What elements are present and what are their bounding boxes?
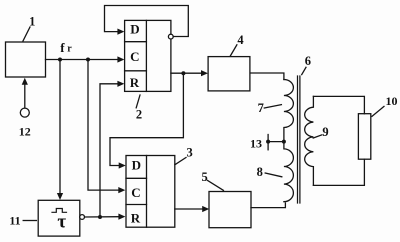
junction node C on flip-flop 2 output: [181, 71, 185, 75]
junction node on primary centre tap: [282, 140, 286, 144]
svg-text:6: 6: [305, 54, 311, 68]
resistor 10 (load): [358, 114, 370, 160]
flip-flop 3 body: [126, 156, 175, 228]
leader line for label 9: [313, 135, 322, 138]
label 4: [237, 33, 244, 47]
leader dash for label 11: [23, 220, 36, 222]
wire: node A down to block 11 (arrow): [57, 60, 63, 201]
svg-text:12: 12: [19, 125, 31, 139]
wire: winding 9 top to load resistor 10: [313, 96, 364, 113]
svg-text:4: 4: [237, 33, 244, 47]
label 2: [136, 107, 142, 121]
wire: flip-flop 2 inverted output feedback to its D input: [105, 6, 189, 37]
tau symbol inside block 11: [57, 212, 66, 233]
wire: block 5 output to winding 8: [251, 203, 285, 208]
label 10: [386, 94, 398, 108]
flip-flop 3 input column divider: [146, 156, 148, 228]
label 6: [305, 54, 311, 68]
flip-flop 2 pin label D: [130, 22, 139, 37]
leader line for label 4: [230, 45, 237, 56]
svg-text:D: D: [130, 22, 139, 37]
wire: terminal 12 up to block 1 (arrow): [22, 78, 28, 108]
leader line for label 10: [372, 106, 384, 116]
flip-flop 3 D/C cell divider: [126, 177, 147, 179]
flip-flop 2 D/C cell divider: [125, 41, 147, 43]
svg-text:C: C: [130, 49, 139, 64]
block 1 (reference frequency oscillator): [6, 42, 46, 77]
flip-flop 3 C/R cell divider: [126, 204, 147, 206]
leader line for label 1: [23, 27, 30, 41]
wire: block 1 output to C input of flip-flop 2: [46, 56, 125, 62]
svg-text:C: C: [131, 185, 140, 200]
svg-text:R: R: [131, 211, 141, 226]
block 11 (pulse former, monostable): [38, 200, 80, 236]
svg-text:10: 10: [386, 94, 398, 108]
pulse symbol inside block 11: [52, 209, 67, 213]
label 3: [186, 146, 192, 160]
label 7: [258, 101, 264, 115]
wire: flip-flop 2 output to block 4: [171, 70, 208, 76]
svg-text:2: 2: [136, 107, 142, 121]
wire: centre tap to terminal 13: [268, 141, 284, 143]
wire: resistor 10 bottom back to winding 9: [313, 159, 364, 185]
svg-text:1: 1: [29, 14, 35, 28]
svg-text:7: 7: [258, 101, 264, 115]
label 8: [257, 165, 263, 179]
svg-text:8: 8: [257, 165, 263, 179]
leader line for label 3: [175, 158, 186, 165]
label 1: [29, 14, 35, 28]
leader line for label 2: [136, 95, 140, 108]
transformer core line (left): [297, 76, 299, 203]
winding 9 (secondary): [305, 96, 314, 185]
junction node D on block 11 output: [98, 215, 102, 219]
junction dot at terminal 13: [266, 140, 270, 144]
svg-text:r: r: [67, 44, 72, 55]
input terminal circle (node 12): [20, 108, 29, 117]
flip-flop 2 input column divider: [145, 20, 147, 91]
label 13: [250, 136, 262, 150]
winding 7 (upper primary half): [284, 80, 294, 142]
flip-flop 2 body: [125, 20, 171, 91]
svg-text:9: 9: [322, 125, 328, 139]
svg-text:R: R: [130, 75, 140, 90]
wire: block 11 output up to R input of flip-flop 2: [100, 81, 124, 217]
label 12: [19, 125, 31, 139]
flip-flop 2 pin label R: [130, 75, 140, 90]
label 5: [201, 170, 207, 184]
leader line for label 6: [302, 67, 306, 74]
wire: block 4 output to winding 7: [250, 73, 284, 80]
block 4 (upper driver stage): [208, 57, 250, 91]
junction node B: [86, 58, 90, 62]
wire: node C down and across to D input of flip-flop 3: [110, 73, 183, 168]
label 9: [322, 125, 328, 139]
wire: node B down and right to C input of flip-flop 3: [88, 60, 125, 194]
wire: flip-flop 3 output to block 5: [175, 206, 209, 212]
flip-flop 2 inverted output bubble: [168, 34, 173, 39]
svg-text:11: 11: [9, 214, 20, 228]
svg-text:5: 5: [201, 170, 207, 184]
wire: block 11 output to R input of flip-flop 3: [85, 214, 126, 220]
svg-text:13: 13: [250, 136, 262, 150]
leader line for label 7: [264, 105, 281, 108]
flip-flop 3 pin label D: [132, 158, 141, 173]
flip-flop 2 C/R cell divider: [125, 70, 147, 72]
label 11: [9, 214, 20, 228]
flip-flop 2 pin label C: [130, 49, 139, 64]
svg-text:3: 3: [186, 146, 192, 160]
terminal 13 bar: [267, 135, 269, 150]
junction node A: [58, 58, 62, 62]
svg-text:f: f: [60, 40, 65, 55]
flip-flop 3 pin label R: [131, 211, 141, 226]
leader line for label 8: [265, 173, 282, 177]
leader line for label 5: [208, 180, 224, 190]
label f r (reference frequency): [60, 40, 72, 55]
block 5 (lower driver stage): [209, 192, 251, 228]
winding 8 (lower primary half): [284, 142, 294, 202]
block 11 output bubble: [80, 215, 85, 220]
transformer core line (right): [299, 76, 301, 203]
svg-text:τ: τ: [57, 212, 66, 233]
svg-text:D: D: [132, 158, 141, 173]
flip-flop 3 pin label C: [131, 185, 140, 200]
